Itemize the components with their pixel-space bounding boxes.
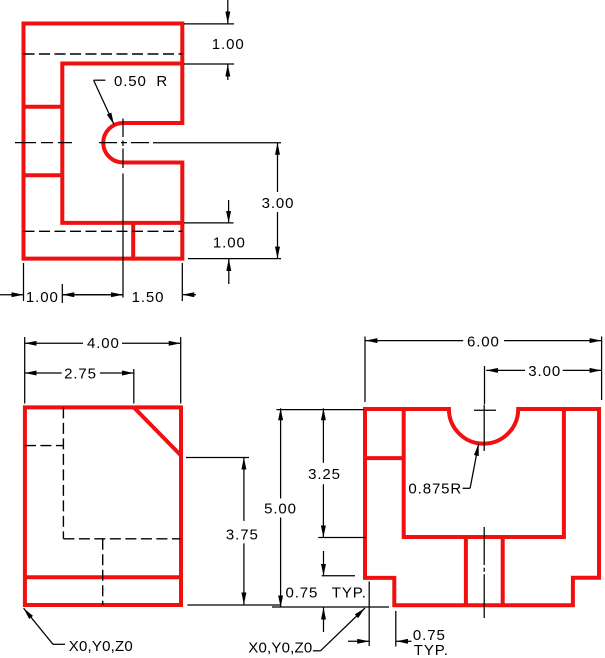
extension line from slot center to right [153, 142, 281, 144]
extension lines 0.75 bottom [369, 582, 396, 647]
hidden vertical upper-left [62, 407, 64, 538]
extension lines 4.00 / 2.75 [25, 337, 181, 404]
outer profile with round notch and stepped base [365, 409, 599, 605]
leader X0,Y0,Z0 arrow [24, 608, 53, 644]
chamfer edge [134, 407, 181, 455]
svg-text:4.00: 4.00 [87, 335, 120, 352]
svg-text:6.00: 6.00 [467, 334, 500, 351]
hidden horizontal upper-left [25, 445, 64, 447]
extension line bottom [187, 604, 281, 606]
svg-text:3.75: 3.75 [226, 527, 259, 544]
extension line inner bottom edge [184, 222, 234, 224]
extension lines 6.00 [365, 337, 602, 405]
dim 3.25 line [322, 408, 324, 463]
svg-text:2.75: 2.75 [64, 366, 97, 383]
inner pocket edges [404, 409, 564, 537]
svg-text:1.00: 1.00 [26, 289, 59, 306]
svg-text:0.50: 0.50 [114, 73, 147, 90]
bottom band edge [25, 575, 181, 579]
dim 1.50 bottom: right outside arrow [182, 294, 196, 296]
dim 4.00 line [25, 342, 83, 344]
left column edge [365, 456, 404, 460]
hidden vertical lower [102, 539, 104, 605]
svg-text:0.875R: 0.875R [408, 480, 462, 497]
leader X0,Y0,Z0 right hook [313, 650, 321, 652]
svg-text:1.00: 1.00 [212, 36, 245, 53]
inner step edges [62, 64, 182, 223]
extension line chamfer end [186, 457, 249, 459]
svg-text:X0,Y0,Z0: X0,Y0,Z0 [69, 638, 133, 655]
extension line inner top edge [184, 63, 234, 65]
dim 1.00 bottom: left outside arrow [0, 294, 24, 296]
extension line step left [322, 575, 355, 577]
bottom dims extension lines [24, 263, 183, 303]
dim 1.00 right: upper arrow [228, 200, 230, 223]
centerline crosshair at notch [474, 409, 496, 411]
horizontal centerline left part [15, 142, 72, 144]
svg-text:0.75: 0.75 [286, 584, 319, 601]
leader 0.875R hook [463, 487, 471, 489]
svg-text:1.00: 1.00 [213, 235, 246, 252]
leader 0.50 R hook [94, 79, 106, 81]
svg-text:TYP.: TYP. [332, 584, 367, 601]
dim 1.00 top-right: lower arrow [227, 65, 229, 81]
left column edge upper [24, 105, 63, 109]
dim 3.00 line [486, 369, 525, 371]
dim 0.75 bottom: right arrow [396, 640, 411, 642]
bottom band vertical edge [131, 223, 135, 259]
svg-text:R: R [156, 73, 168, 90]
outer rectangle [25, 407, 181, 605]
extension line bottom edge right [188, 258, 281, 260]
dim 0.75 left: lower arrow [323, 608, 325, 633]
leader X0,Y0,Z0 right arrow [321, 608, 366, 651]
dim 0.75 left: upper arrow [323, 551, 325, 576]
vertical centerline [483, 405, 485, 619]
arc crosshair horizontal [99, 142, 149, 144]
svg-text:1.50: 1.50 [132, 289, 165, 306]
dim 2.75 line [25, 372, 62, 374]
svg-text:TYP.: TYP. [414, 642, 449, 658]
outer profile with rounded slot [24, 24, 183, 259]
hidden horizontal middle [63, 538, 180, 540]
dim 1.00 bottom / 1.50 shared tails [62, 294, 123, 296]
svg-text:3.00: 3.00 [262, 195, 295, 212]
hidden line lower [24, 230, 183, 232]
extension line bottom shared [272, 606, 389, 608]
dim 6.00 line [365, 340, 463, 342]
extension line 3.25 bottom [318, 537, 366, 539]
dim 3.00 right vertical line [277, 143, 279, 192]
band vertical left [464, 537, 468, 605]
band vertical right [501, 537, 505, 605]
leader 0.875R arrow [470, 444, 479, 489]
svg-text:3.25: 3.25 [308, 466, 341, 483]
dim 1.00 top-right: upper arrow [227, 0, 229, 24]
dim 1.00 right: lower arrow [228, 259, 230, 284]
dim 3.75 line [243, 458, 245, 521]
dim 0.75 bottom: left arrow [348, 640, 369, 642]
leader 0.50 R arrow [94, 80, 114, 124]
arc crosshair vertical / centerline down [122, 119, 124, 298]
extension line top-left [277, 409, 365, 411]
svg-text:X0,Y0,Z0: X0,Y0,Z0 [248, 639, 312, 656]
leader X0,Y0,Z0 hook [53, 643, 65, 645]
hidden line upper [24, 53, 183, 55]
svg-text:3.00: 3.00 [528, 363, 561, 380]
extension line top edge [184, 23, 234, 25]
left column edge lower [24, 173, 63, 177]
svg-text:5.00: 5.00 [264, 501, 297, 518]
dim 5.00 line [280, 408, 282, 498]
